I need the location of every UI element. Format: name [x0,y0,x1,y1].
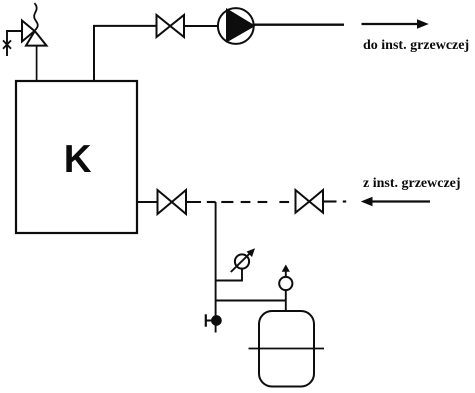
wire valve to pump [184,25,218,27]
wire pump to supply outlet [254,24,344,26]
wire safety valve outlet (left) [7,31,22,56]
wire branch to gauge [216,269,242,281]
drain X symbol [3,40,11,48]
wire vessel riser [285,290,287,312]
return arrow (from installation) [361,197,430,207]
expansion vessel N [249,311,325,387]
valve Z2 (return shut-off) [158,190,187,214]
drain valve (ball) [206,314,221,326]
air vent valve on vessel [279,265,292,291]
valve Z3 (installation return valve) [296,190,324,213]
wire safety valve to boiler top [36,46,38,81]
label: do inst. grzewczej [363,38,469,54]
wire supply pipe to valve [93,25,157,27]
wire boiler to return valve [137,201,158,203]
wire branch to expansion vessel [216,300,286,302]
flow arrow (to installation) [362,19,429,29]
wire dashes after valve [323,200,346,202]
label K (boiler) [64,138,92,182]
boiler K [16,81,137,233]
valve Z1 (supply shut-off) [157,15,185,37]
safety valve SV [22,3,47,45]
wire junction drop line [215,202,217,333]
wire riser from boiler top to supply pipe [93,26,95,81]
pressure gauge M [231,248,255,272]
wire dashed return line [207,201,289,203]
label: z inst. grzewczej [363,176,461,192]
wire valve to junction [186,201,201,203]
pump P [218,8,254,44]
